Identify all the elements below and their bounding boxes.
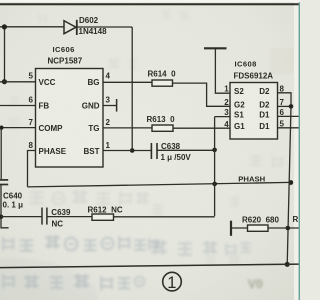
wire S1 pin 3 vertical: [215, 117, 230, 217]
node junction dot on BST wire: [130, 148, 135, 153]
wire left rail vertical: [4, 27, 6, 82]
top white scan edge: [0, 0, 300, 2]
wire PHASH net: [28, 182, 292, 187]
wire C638 to S1 vertical: [157, 149, 215, 151]
node junction dot COMP/C640: [0, 126, 4, 130]
wire D1 pin 6: [278, 115, 301, 117]
capacitor C638: [151, 143, 157, 159]
wire GND pin 3 stub: [103, 105, 117, 107]
node junction dot C638/S1: [212, 148, 217, 153]
circled numeral 1: [163, 272, 182, 291]
ground bar above IC608: [204, 47, 227, 49]
wire diode cathode to BST riser: [77, 26, 132, 28]
wire COMP pin 7: [0, 127, 36, 129]
node junction dot pin7/pin8: [289, 104, 294, 109]
wire C640 lower lead: [0, 185, 2, 217]
capacitor C640: [0, 180, 8, 185]
wire stub below C640 node: [1, 217, 9, 228]
resistor R613: [152, 125, 173, 131]
op-amp IC606 box: [36, 69, 104, 168]
node junction dot PHASH right: [288, 180, 293, 185]
wire C639 to R612: [47, 216, 92, 218]
wire R614 to G2 pin 2: [173, 83, 231, 106]
wire BST riser vertical: [131, 27, 133, 151]
ground tick IC606 GND: [116, 99, 118, 112]
wire top rail: [0, 3, 300, 5]
wire left rail to diode anode: [0, 26, 64, 28]
wire C640 riser: [0, 128, 2, 180]
wire BG pin 4 to R614: [103, 81, 152, 83]
wire D2 pin 8: [278, 93, 292, 107]
capacitor C639: [42, 208, 47, 225]
node junction dot top-left: [2, 24, 7, 29]
wire D2 pin 7: [278, 105, 292, 107]
resistor R620: [248, 225, 269, 231]
node junction dot bottom rail: [285, 262, 290, 267]
wire TG pin 2 to R613: [103, 127, 152, 129]
wire R613 to G1 pin 4: [173, 127, 230, 129]
right light margin strip: [294, 0, 299, 300]
wire D1 pin 5: [278, 127, 301, 129]
transistor IC608 box: [230, 83, 278, 140]
capacitor plate left of R620: [230, 221, 232, 236]
wire C639 from C640 node: [1, 216, 42, 218]
resistor R614: [152, 80, 173, 86]
node junction dot PHASH/S1: [212, 182, 217, 187]
diode D602: [64, 20, 77, 35]
wire ground stem to S2 pin 1: [215, 48, 230, 93]
wire bottom rail: [0, 264, 300, 268]
wire BST pin 1: [103, 150, 151, 152]
resistor R612: [92, 214, 114, 220]
wire plate to R620: [231, 227, 248, 229]
bottom-left corner shade: [0, 258, 98, 300]
right teal scan edge: [299, 0, 300, 300]
node junction dot R620 net: [286, 226, 291, 231]
wire FB pin 6: [0, 105, 36, 107]
wire right vertical rail: [287, 106, 291, 264]
wire R620 to right rail: [268, 227, 300, 229]
wire PHASE pin 8 to riser: [28, 151, 36, 187]
node junction dot C640/C639: [0, 215, 3, 220]
wire R612 to PHASH riser: [114, 216, 215, 218]
node junction dot at VCC branch: [2, 79, 7, 84]
wire to VCC pin 5: [0, 81, 36, 83]
